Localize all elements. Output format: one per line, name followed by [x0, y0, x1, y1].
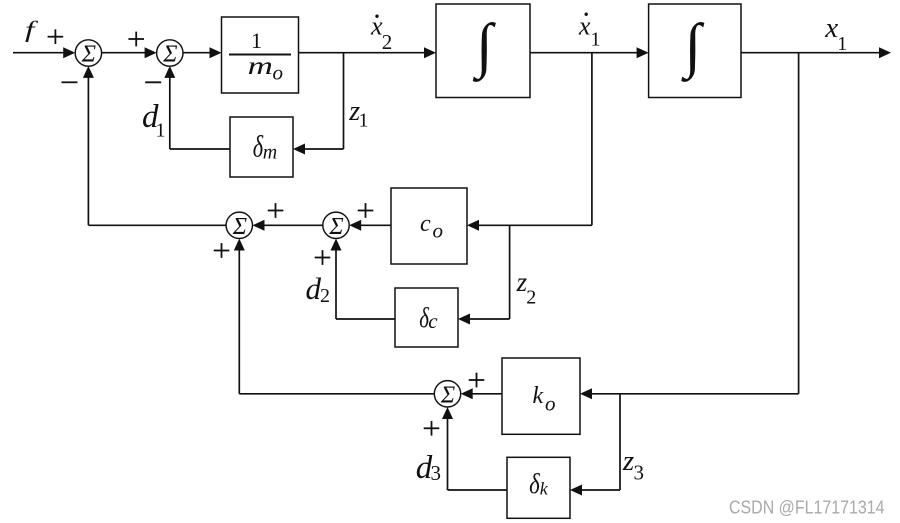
svg-text:Σ: Σ — [81, 42, 96, 68]
svg-text:o: o — [433, 218, 444, 242]
svg-text:Σ: Σ — [232, 214, 247, 240]
svg-text:∫: ∫ — [681, 12, 705, 82]
svg-text:1: 1 — [837, 33, 847, 55]
svg-text:1: 1 — [156, 120, 166, 142]
svg-text:3: 3 — [634, 460, 645, 484]
svg-text:1: 1 — [359, 109, 369, 131]
svg-text:m: m — [248, 52, 273, 80]
svg-text:∫: ∫ — [472, 12, 496, 82]
svg-text:k: k — [533, 383, 544, 409]
svg-text:z: z — [622, 445, 634, 477]
svg-text:k: k — [540, 478, 549, 498]
svg-text:CSDN @FL17171314: CSDN @FL17171314 — [729, 498, 885, 518]
svg-text:o: o — [545, 391, 556, 415]
svg-text:c: c — [428, 309, 438, 333]
svg-text:2: 2 — [526, 287, 536, 309]
svg-text:x: x — [578, 12, 591, 41]
svg-text:Σ: Σ — [440, 382, 455, 408]
svg-text:1: 1 — [251, 28, 262, 53]
svg-text:3: 3 — [431, 461, 442, 485]
svg-text:1: 1 — [591, 28, 601, 50]
svg-text:c: c — [420, 211, 431, 237]
svg-text:2: 2 — [382, 30, 393, 54]
svg-text:Σ: Σ — [162, 42, 177, 68]
svg-text:o: o — [273, 61, 284, 85]
svg-text:Σ: Σ — [328, 214, 343, 240]
svg-text:x: x — [824, 12, 838, 44]
svg-text:2: 2 — [320, 285, 330, 307]
svg-text:m: m — [263, 141, 277, 163]
